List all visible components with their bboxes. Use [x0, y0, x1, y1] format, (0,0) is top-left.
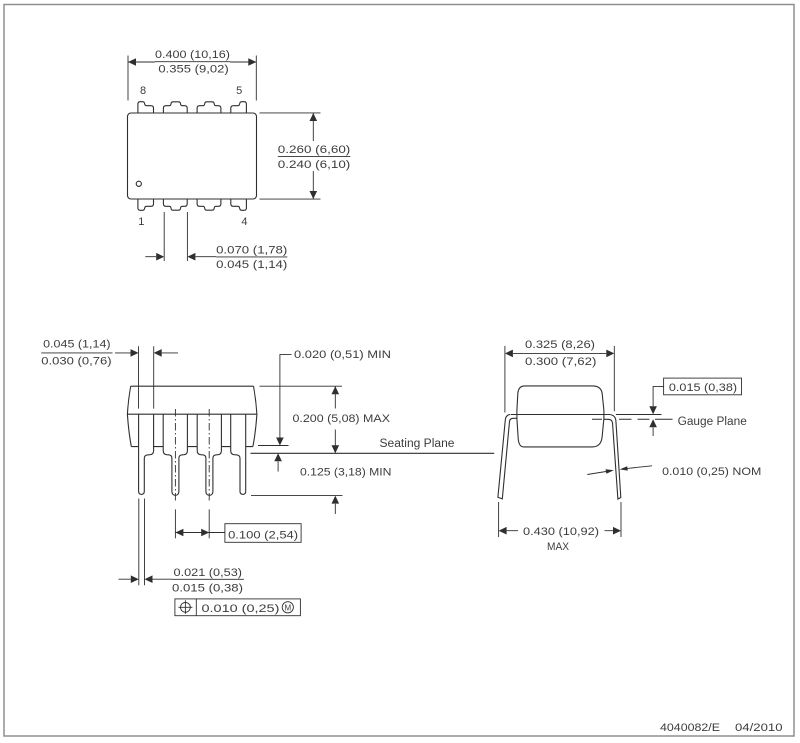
feature control frame: [175, 599, 301, 616]
gauge plane line: [592, 418, 673, 420]
dim 0.430 extension lines: [499, 502, 621, 537]
dim 0.100 text: [228, 529, 298, 541]
front view body bottom edge segments: [131, 446, 253, 448]
end view lead top line: [511, 414, 610, 416]
dim 0.430 dimension line: [507, 530, 613, 532]
dim 0.045/0.030 text: [41, 339, 111, 368]
front view mold parting line: [127, 413, 257, 415]
svg-text:Seating Plane: Seating Plane: [380, 438, 455, 450]
dim 0.260/0.240 text: [278, 144, 351, 171]
dim 0.325/0.300 text: [525, 339, 596, 368]
feature control frame text: [202, 603, 280, 615]
svg-text:0.010 (0,25) NOM: 0.010 (0,25) NOM: [662, 466, 761, 478]
front view body left outline: [127, 386, 131, 446]
gauge plane label: [678, 416, 747, 428]
front view lead 1: [139, 414, 154, 494]
pin width extension lines: [139, 499, 145, 586]
svg-text:0.045 (1,14): 0.045 (1,14): [216, 259, 287, 271]
top view pin 4 tab: [231, 199, 247, 210]
dim 0.045/0.030 fraction bar: [41, 352, 112, 354]
front view lead 2: [163, 414, 187, 495]
svg-text:0.400 (10,16): 0.400 (10,16): [155, 49, 230, 61]
dim 0.125 text: [300, 467, 392, 479]
svg-text:1: 1: [138, 216, 144, 228]
svg-text:0.020 (0,51) MIN: 0.020 (0,51) MIN: [294, 349, 391, 361]
end view body outline: [517, 386, 604, 447]
svg-text:04/2010: 04/2010: [735, 722, 783, 734]
svg-text:0.015 (0,38): 0.015 (0,38): [172, 582, 243, 594]
top view pin 6 tab: [197, 102, 221, 113]
svg-text:0.260 (6,60): 0.260 (6,60): [278, 144, 351, 156]
dim 0.400/0.355 fraction bar: [155, 61, 230, 63]
svg-text:MAX: MAX: [547, 541, 570, 553]
top view pin 5 tab: [231, 102, 247, 113]
dim 0.200 text: [293, 413, 391, 425]
body bottom extension line right: [258, 445, 289, 447]
svg-text:0.300 (7,62): 0.300 (7,62): [525, 356, 596, 368]
lead 3 centerline: [208, 409, 210, 502]
dim 0.430 text: [523, 526, 599, 553]
dim 0.021/0.015 text: [172, 567, 243, 594]
dim 0.020 lower arrow: [277, 461, 279, 471]
dim 0.015 box: [664, 378, 742, 395]
svg-text:0.021 (0,53): 0.021 (0,53): [174, 567, 243, 579]
dim 0.045/0.030 dimension line: [115, 352, 178, 354]
position tolerance symbol: [181, 602, 191, 612]
top view pin 7 tab: [163, 102, 187, 113]
svg-text:0.015 (0,38): 0.015 (0,38): [669, 382, 737, 394]
dim 0.020 text: [294, 349, 391, 361]
front view lead 4: [231, 414, 246, 494]
dim 0.260/0.240 fraction bar: [278, 156, 351, 158]
lead 2 centerline: [174, 409, 176, 502]
dim 0.070/0.045 fraction bar: [216, 256, 287, 258]
dim 0.015 leader: [653, 386, 664, 406]
dim 0.400/0.355 text: [155, 49, 230, 76]
svg-text:8: 8: [140, 85, 146, 97]
svg-text:0.240 (6,10): 0.240 (6,10): [278, 159, 351, 171]
svg-text:0.030 (0,76): 0.030 (0,76): [41, 356, 111, 368]
svg-text:5: 5: [236, 85, 242, 97]
dim 0.260/0.240 dimension line: [312, 113, 314, 199]
front view lead 3: [197, 414, 221, 495]
svg-text:M: M: [284, 603, 291, 612]
svg-text:0.430 (10,92): 0.430 (10,92): [523, 526, 599, 538]
top view package body: [128, 113, 257, 199]
seating plane line: [251, 452, 495, 454]
svg-text:0.200 (5,08) MAX: 0.200 (5,08) MAX: [293, 413, 391, 425]
top view pin 1 tab: [138, 199, 154, 210]
dim 0.325/0.300 dimension line: [513, 352, 606, 354]
dim 0.070/0.045 extension lines: [145, 212, 216, 261]
end view left leg: [498, 415, 517, 499]
svg-text:4040082/E: 4040082/E: [660, 722, 720, 734]
pin 1 index dot: [136, 181, 141, 186]
dim 0.070/0.045 text: [216, 245, 287, 272]
dim 0.045/0.030 extension lines: [41, 346, 178, 408]
svg-text:4: 4: [241, 216, 247, 228]
dim 0.070/0.045 dimension line: [145, 256, 216, 258]
top view pin 3 tab: [197, 199, 221, 210]
dim 0.015 lower arrow: [652, 427, 654, 436]
dim 0.260/0.240 extension lines: [260, 113, 321, 199]
seating plane label: [380, 438, 455, 450]
dim 0.400/0.355 dimension line and arrows: [128, 61, 256, 63]
body top extension line right: [260, 385, 343, 387]
pin number labels: [138, 85, 247, 228]
svg-text:0.070 (1,78): 0.070 (1,78): [216, 245, 287, 257]
svg-text:0.045 (1,14): 0.045 (1,14): [43, 339, 111, 351]
title block text: [660, 722, 783, 734]
svg-text:0.010 (0,25): 0.010 (0,25): [202, 603, 280, 615]
top view pin 8 tab: [138, 102, 154, 113]
dim 0.021/0.015 fraction bar: [172, 578, 244, 580]
dim 0.400/0.355 extension lines: [128, 56, 256, 101]
svg-text:0.355 (9,02): 0.355 (9,02): [158, 63, 228, 75]
svg-text:0.325 (8,26): 0.325 (8,26): [525, 339, 595, 351]
svg-text:0.125 (3,18) MIN: 0.125 (3,18) MIN: [300, 467, 392, 479]
lead top extension line right: [616, 414, 662, 416]
dim 0.100 dimension line: [175, 532, 225, 534]
dim 0.125 lower arrow: [334, 504, 336, 514]
front view body right outline: [253, 386, 257, 446]
dim 0.020 leader: [280, 355, 292, 438]
dim 0.021/0.015 dimension line: [119, 578, 172, 580]
dim 0.325/0.300 fraction bar: [524, 352, 595, 354]
dim 0.200 dimension line: [334, 386, 336, 453]
end view right leg: [604, 415, 621, 500]
dim 0.325/0.300 extension lines: [505, 346, 614, 413]
svg-text:Gauge Plane: Gauge Plane: [678, 416, 747, 428]
dim 0.010 NOM arrows: [587, 472, 606, 475]
front view body top edge: [131, 385, 254, 387]
svg-text:0.100 (2,54): 0.100 (2,54): [228, 529, 298, 541]
M circle symbol: [282, 602, 293, 613]
dim 0.010 NOM text: [662, 466, 761, 478]
lead tip extension line: [251, 495, 343, 497]
dim 0.100 box: [225, 524, 301, 543]
top view pin 2 tab: [163, 199, 187, 210]
